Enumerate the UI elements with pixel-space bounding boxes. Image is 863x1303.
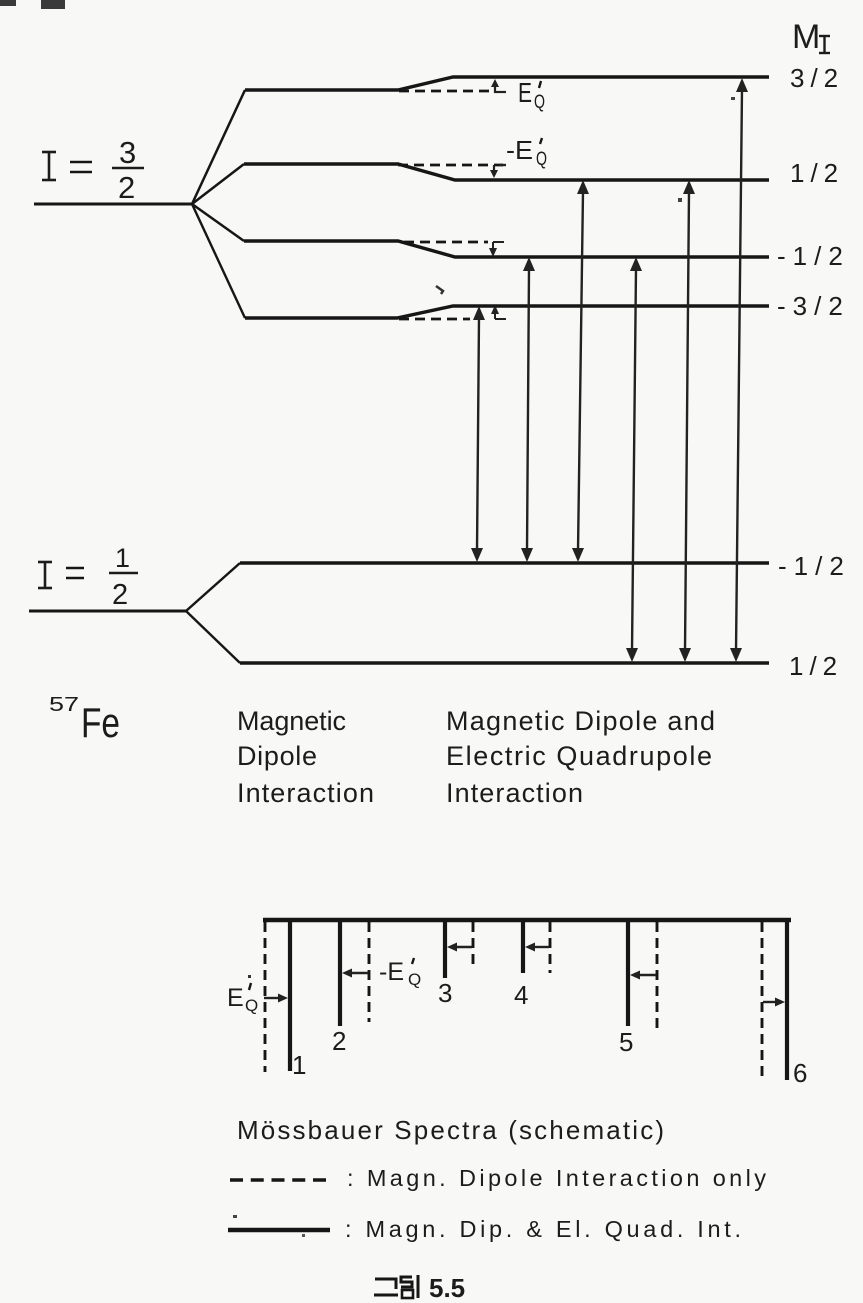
dashed magnetic-only level m=1/2 — [398, 164, 503, 167]
svg-text:-E: -E — [379, 958, 404, 986]
spectrum dashed line E — [656, 922, 659, 1029]
scan artifact top-left — [0, 0, 16, 6]
svg-text:5.5: 5.5 — [429, 1273, 465, 1303]
svg-text:-3/2: -3/2 — [777, 291, 850, 321]
legend stray dot — [233, 1215, 237, 1218]
level lower m=-1/2 — [240, 561, 769, 564]
quadrupole shift marker m=-3/2 (up arrow with foot) — [491, 305, 506, 319]
level I=3/2 base line — [34, 203, 192, 206]
transition arrow 1 — [471, 306, 485, 562]
svg-text:Magnetic Dipole and: Magnetic Dipole and — [446, 706, 715, 736]
legend dashed sample — [230, 1178, 327, 1182]
legend solid sample — [228, 1228, 330, 1233]
level m=3/2 magnetic segment — [245, 77, 769, 90]
svg-text:Interaction: Interaction — [446, 778, 583, 808]
spectrum solid line 2 — [338, 922, 342, 1026]
spectrum dashed line F — [761, 922, 764, 1080]
spectrum shift arrow into line 2 — [342, 969, 368, 978]
spectrum baseline — [263, 918, 791, 923]
svg-text:Q: Q — [408, 970, 421, 989]
fan wire to lower m=1/2 — [186, 611, 240, 663]
scan artifact top — [41, 0, 65, 9]
svg-text:1/2: 1/2 — [789, 651, 843, 681]
svg-text:E: E — [518, 77, 532, 108]
spectrum solid line 5 — [626, 922, 630, 1026]
spectrum solid line 6 — [785, 922, 789, 1080]
spectrum shift arrow into line 3 — [447, 943, 472, 952]
level m=-3/2 magnetic segment — [245, 306, 769, 318]
spectrum dashed line C — [472, 922, 475, 970]
svg-text:57: 57 — [49, 694, 79, 716]
svg-text:Q: Q — [245, 996, 258, 1015]
svg-text:2: 2 — [118, 170, 135, 205]
svg-text:6: 6 — [793, 1058, 807, 1088]
dashed magnetic-only level m=-1/2 — [404, 241, 488, 244]
stray ink mark — [436, 286, 443, 294]
svg-text:5: 5 — [619, 1027, 633, 1057]
fan wire to m=3/2 — [192, 90, 245, 204]
stray dot near arrow 6 — [731, 97, 735, 100]
level I=1/2 base line — [29, 610, 186, 613]
transition arrow 6 — [730, 78, 748, 662]
stray dot near arrow 5 — [678, 198, 682, 202]
spectrum shift arrow into line 4 — [525, 943, 549, 952]
quadrupole shift marker m=1/2 (down arrow with top tick) — [490, 165, 506, 178]
svg-text:1: 1 — [115, 543, 130, 573]
svg-text:3/2: 3/2 — [790, 63, 844, 93]
label -E'Q upper — [506, 135, 547, 170]
dashed magnetic-only level m=-3/2 — [399, 318, 470, 321]
svg-text:Fe: Fe — [81, 699, 120, 746]
transition arrow 3 — [572, 180, 589, 562]
spectrum solid line 1 — [288, 922, 292, 1071]
spectrum shift arrow into line 1 — [264, 994, 288, 1003]
svg-text:Q: Q — [534, 92, 545, 113]
spectrum solid line 4 — [521, 922, 525, 973]
label E'Q upper — [518, 77, 545, 113]
label I = 1/2 — [38, 562, 52, 588]
svg-text:-1/2: -1/2 — [777, 241, 850, 271]
label E'Q spectrum — [227, 975, 258, 1015]
spectrum dashed line A — [264, 922, 267, 1072]
level m=1/2 magnetic segment — [244, 164, 769, 180]
svg-text:3: 3 — [438, 978, 452, 1008]
spectrum shift arrow into line 5 — [630, 971, 656, 980]
fan wire to m=-3/2 — [192, 204, 245, 318]
svg-text:Dipole: Dipole — [237, 741, 317, 771]
fan wire to lower m=-1/2 — [186, 563, 240, 611]
svg-text:: Magn. Dipole Interaction on: : Magn. Dipole Interaction only — [347, 1165, 766, 1191]
label I = 3/2 — [42, 152, 56, 180]
transition arrow 4 — [626, 257, 642, 662]
svg-text:Electric Quadrupole: Electric Quadrupole — [446, 741, 712, 771]
svg-text:3: 3 — [119, 135, 136, 170]
quadrupole shift marker m=3/2 (up arrow with foot) — [491, 79, 506, 93]
svg-text:Interaction: Interaction — [237, 778, 374, 808]
svg-text:2: 2 — [112, 579, 128, 611]
fan wire to m=-1/2 — [192, 204, 244, 241]
svg-text:E: E — [227, 984, 244, 1012]
svg-text:Magnetic: Magnetic — [237, 706, 346, 736]
svg-text:1: 1 — [292, 1050, 306, 1080]
caption 그림 (Hangul geu-rim) drawn strokes — [374, 1275, 418, 1298]
transition arrow 5 — [679, 180, 695, 662]
svg-text:Mössbauer Spectra (schematic): Mössbauer Spectra (schematic) — [237, 1115, 664, 1145]
svg-text:Q: Q — [536, 149, 547, 170]
quadrupole shift marker m=-1/2 (down arrow with top tick) — [489, 242, 504, 257]
spectrum shift arrow into line 6 — [763, 998, 785, 1007]
dashed magnetic-only level m=3/2 — [399, 90, 490, 93]
transition arrow 2 — [521, 257, 535, 562]
svg-text:1/2: 1/2 — [790, 158, 844, 188]
svg-text:2: 2 — [332, 1026, 346, 1056]
spectrum solid line 3 — [443, 922, 447, 978]
spectrum dashed line B — [368, 922, 371, 1022]
svg-text:-1/2: -1/2 — [778, 551, 851, 581]
svg-text:4: 4 — [514, 980, 528, 1010]
level lower m=1/2 — [240, 661, 769, 664]
svg-text:-E: -E — [506, 135, 533, 165]
label -E'Q spectrum — [379, 958, 421, 989]
spectrum dashed line D — [549, 922, 552, 973]
level m=-1/2 magnetic segment — [244, 241, 769, 257]
fan wire to m=1/2 — [192, 164, 244, 204]
svg-text:M: M — [792, 18, 820, 56]
